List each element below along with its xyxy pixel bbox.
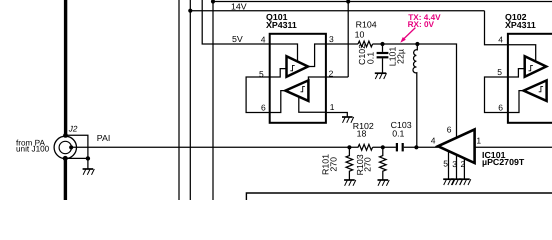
connector J2: [54, 0, 78, 200]
capacitor C102: [377, 44, 389, 73]
svg-text:22µ: 22µ: [395, 49, 405, 64]
svg-text:270: 270: [363, 157, 373, 172]
IC101 triangle (left-pointing): [438, 129, 475, 163]
Q101 internal wire pin2: [308, 77, 325, 81]
svg-text:2: 2: [329, 69, 334, 79]
node: R103 tap dot: [381, 145, 385, 149]
node: R101 tap dot: [347, 145, 351, 149]
svg-text:5: 5: [497, 67, 502, 77]
wire: shield ground stub: [87, 158, 89, 169]
wire: bottom border box corner: [246, 193, 552, 200]
Q102 buffer triangle bottom (left-pointing): [524, 80, 547, 101]
Q101 internal wire pin1: [299, 96, 326, 112]
J2 coax feed thick line bottom: [64, 160, 67, 200]
ground for C102: [375, 73, 387, 79]
wire: Q102 pins 5-6 tie (U shape): [485, 77, 508, 113]
svg-text:RX: 0V: RX: 0V: [408, 20, 435, 29]
Q101 package box: [270, 34, 326, 123]
IC101 pin3 ground stub: [456, 155, 458, 179]
svg-text:4: 4: [498, 34, 503, 44]
op-amp IC101: [431, 125, 525, 180]
Q102 internal wire pin4: [508, 45, 536, 61]
annotation arrow (magenta): [404, 28, 415, 39]
svg-text:270: 270: [329, 157, 339, 172]
svg-text:6: 6: [447, 125, 452, 135]
inductor L101: [413, 44, 417, 147]
wire: rail B: [190, 10, 484, 12]
ground for IC101 pin2: [459, 179, 471, 185]
ground for J2 shield: [83, 169, 95, 175]
ground for IC101 pin3: [451, 179, 463, 185]
wire: vertical bus x=179: [178, 0, 180, 200]
Q101 hysteresis mark bottom: [300, 86, 304, 91]
IC101 pin2 ground stub: [463, 159, 465, 179]
svg-text:0.1: 0.1: [366, 52, 376, 64]
wire: rail A drop to Q101 pin 2, x=348: [347, 2, 349, 78]
Q101 internal wire pin4: [270, 44, 298, 61]
resistor R103: [380, 147, 387, 180]
node: L101/C103 node dot: [414, 145, 418, 149]
resistor R101: [346, 147, 353, 180]
svg-text:µPC2709T: µPC2709T: [482, 157, 525, 167]
svg-text:unit J100: unit J100: [16, 145, 50, 154]
svg-text:5: 5: [443, 159, 448, 169]
Q102 buffer triangle top (right-pointing): [525, 56, 547, 77]
wire: rail A 14V top: [213, 1, 552, 3]
Q101 internal wire pin6: [270, 91, 287, 113]
svg-text:6: 6: [261, 102, 266, 112]
node: shield ground junction dot: [86, 156, 90, 160]
Q101 internal wire pin5: [270, 69, 287, 77]
wire: 5V feed, vertical x=202 then to Q101 pin 4: [202, 0, 270, 44]
wire: R102 to C103: [373, 146, 396, 148]
svg-text:R104: R104: [356, 19, 377, 29]
Q102 internal wire pin6: [508, 91, 525, 113]
IC101 pin5 ground stub: [448, 152, 450, 180]
J2 coax feed thick line top: [64, 0, 67, 134]
svg-text:5V: 5V: [232, 34, 243, 44]
ground for R101: [344, 180, 356, 186]
Q101 buffer triangle bottom (left-pointing): [285, 80, 308, 101]
Q102 internal wire pin5: [508, 69, 525, 77]
svg-text:14V: 14V: [231, 2, 247, 12]
Q101 buffer triangle top (right-pointing): [287, 56, 309, 77]
wire: Q101 pin1 to ground: [326, 113, 348, 118]
J2 inner circle: [59, 141, 71, 153]
svg-text:3: 3: [329, 34, 334, 44]
wire: J2 shield loop: [65, 135, 88, 158]
ground for R103: [378, 180, 390, 186]
wire: Q101 pin 2 to x=348: [326, 76, 348, 78]
svg-text:18: 18: [357, 129, 367, 139]
Q102 hysteresis mark bottom: [539, 86, 543, 91]
node: rail B junction dot: [188, 9, 192, 13]
node: L101 tap dot: [415, 42, 419, 46]
Q101 hysteresis mark top: [290, 65, 294, 70]
node: C102 tap dot: [380, 42, 384, 46]
Q102 package box: [508, 34, 552, 123]
wire: vertical bus x=190: [189, 0, 191, 200]
svg-text:XP4311: XP4311: [505, 20, 536, 30]
resistor R102: [349, 144, 372, 150]
J2 center pin dot: [69, 145, 73, 149]
transistor Q102: [497, 12, 552, 123]
J2 bottom junction dot: [63, 156, 68, 161]
svg-text:XP4311: XP4311: [266, 20, 297, 30]
wire: C103 to IC101 input: [404, 146, 438, 148]
svg-text:PAI: PAI: [97, 133, 111, 143]
ground for IC101 pin5: [443, 179, 455, 185]
node: rail A junction dot at x=348: [346, 0, 350, 4]
wire: rail B drop to Q102 pin 4: [485, 11, 508, 45]
svg-text:6: 6: [498, 102, 503, 112]
svg-text:1: 1: [476, 135, 481, 145]
node: rail A junction dot at x=213: [211, 0, 215, 4]
wire: IC101 output pin 1 to right edge: [475, 146, 552, 148]
ground for Q101 pin 1: [342, 117, 354, 123]
wire: PAI signal line from J2 to R101 node: [71, 146, 349, 148]
resistor R104: [358, 41, 373, 47]
wire: Q101 pins 5-6 tie (U shape): [246, 77, 270, 113]
J2 top junction dot: [63, 133, 68, 138]
svg-text:4: 4: [431, 135, 436, 145]
svg-text:J2: J2: [68, 125, 78, 134]
J2 outer circle: [54, 136, 76, 158]
svg-text:0.1: 0.1: [392, 128, 404, 138]
wire: Q101 pin 3 out to R104: [326, 43, 358, 45]
svg-text:10: 10: [355, 29, 365, 39]
svg-text:4: 4: [261, 34, 266, 44]
transistor Q101: [259, 12, 335, 123]
wire: main line R104 to IC101 pin6 drop: [373, 44, 457, 138]
capacitor C103: [397, 143, 403, 151]
Q101 internal wire pin3: [308, 44, 326, 67]
svg-text:1: 1: [330, 102, 335, 112]
Q102 hysteresis mark top: [529, 65, 533, 70]
wire: vertical bus x=213: [212, 0, 214, 200]
